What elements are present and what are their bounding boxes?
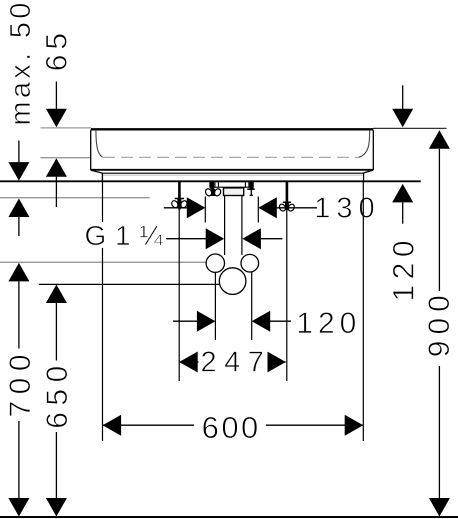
left circle extension line down bbox=[214, 272, 216, 340]
max. 50 up arrow bbox=[8, 199, 29, 218]
trap center leader line for 650 bbox=[39, 283, 220, 285]
basin apron top edge line bbox=[102, 172, 363, 174]
G 1 1/4 arrow right-pointing bbox=[206, 228, 225, 249]
right mounting bolt washer bbox=[283, 201, 291, 203]
120 horizontal dim leader bbox=[173, 320, 198, 322]
wire: gray wall offset line below wall bbox=[0, 197, 150, 199]
wire: gray extension line of rim top, left of basin bbox=[41, 127, 92, 129]
basin inner bowl fillet left bbox=[96, 131, 103, 158]
drain trap circle bbox=[219, 268, 246, 295]
right mounting bolt wing nut bbox=[278, 203, 295, 212]
600 arrow left-pointing bbox=[103, 415, 122, 436]
left mounting bolt tip bbox=[178, 207, 180, 210]
900 up arrow bbox=[429, 130, 450, 149]
600 dim left extension line bbox=[102, 173, 104, 441]
65 lower dim line bbox=[55, 177, 57, 207]
G 1 1/4 arrow left-pointing bbox=[242, 228, 261, 249]
600 dimension line bbox=[103, 424, 364, 426]
svg-text:130: 130 bbox=[314, 193, 380, 225]
faucet hole circle right bbox=[241, 254, 259, 272]
wire: rim top extension line, right of basin bbox=[373, 127, 447, 129]
130 dim arrow right-pointing bbox=[187, 197, 206, 218]
650 up arrow bbox=[46, 285, 67, 304]
basin rim outline bbox=[91, 129, 374, 170]
wall mounting line bbox=[0, 180, 421, 182]
floor line bbox=[0, 516, 458, 518]
700 up arrow bbox=[8, 263, 29, 282]
247 arrow left-pointing bbox=[179, 352, 198, 373]
120 right upper pointer line bbox=[402, 85, 404, 110]
label 700 (rotated, on white) bbox=[6, 349, 33, 422]
left bolt extension line down bbox=[178, 210, 180, 382]
wire: gray faucet-hole center line bbox=[0, 261, 207, 263]
right circle extension line down bbox=[251, 272, 253, 340]
label 900 (rotated, on white) bbox=[425, 291, 453, 366]
right mounting bolt shaft bbox=[286, 181, 289, 202]
svg-text:650: 650 bbox=[41, 359, 74, 429]
max. 50 down arrow bbox=[8, 162, 29, 181]
max. 50 upper dim line bbox=[18, 141, 20, 164]
drain pipe right wall bbox=[241, 196, 243, 255]
basin apron right edge bbox=[363, 173, 365, 181]
700 down arrow bbox=[8, 498, 29, 517]
900 dimension line bbox=[438, 149, 440, 500]
130 dim leader line bbox=[164, 207, 188, 209]
900 down arrow bbox=[429, 498, 450, 517]
basin inner bowl fillet right bbox=[359, 131, 370, 158]
120 right down arrow bbox=[392, 109, 413, 128]
drain outlet box bbox=[224, 188, 244, 196]
600 arrow right-pointing bbox=[345, 415, 364, 436]
svg-text:max. 50: max. 50 bbox=[5, 0, 37, 126]
left mounting bolt washer bbox=[175, 198, 184, 200]
svg-text:900: 900 bbox=[423, 289, 456, 357]
left mounting bolt wing nut bbox=[170, 200, 188, 209]
left mounting bolt shaft bbox=[178, 181, 181, 198]
wire: gray bowl-depth extension line, left of basin bbox=[41, 157, 92, 159]
right bolt extension line down bbox=[286, 211, 288, 382]
mask for G label over extension line bbox=[83, 222, 164, 248]
120 right lower dim line bbox=[402, 202, 404, 223]
120 horizontal arrow left-pointing bbox=[252, 311, 271, 332]
svg-text:700: 700 bbox=[4, 348, 37, 418]
600 dim right extension line bbox=[362, 181, 364, 441]
svg-text:120: 120 bbox=[296, 307, 361, 340]
drain flange left bolt head bbox=[210, 182, 214, 190]
130 dim arrow left-pointing bbox=[258, 197, 277, 218]
svg-text:120: 120 bbox=[387, 235, 420, 302]
label 600 bbox=[194, 411, 266, 440]
faucet hole circle left bbox=[206, 254, 224, 272]
label G 1 1/4 bbox=[83, 221, 165, 249]
650 dimension line bbox=[55, 303, 57, 500]
basin bottom step diagonal right bbox=[364, 170, 373, 173]
65 down arrow bbox=[46, 109, 67, 128]
basin apron shading line bbox=[103, 174, 363, 176]
svg-text:600: 600 bbox=[202, 410, 261, 445]
130 dim right extension line bbox=[257, 197, 259, 223]
wire: dashed hidden line of bowl bottom inside basin bbox=[103, 156, 359, 158]
G 1 1/4 leader line bbox=[166, 238, 207, 240]
svg-text:65: 65 bbox=[41, 28, 74, 71]
drain flange right bolt head bbox=[249, 182, 253, 190]
247 arrow right-pointing bbox=[267, 352, 286, 373]
drain flange right T-pin bbox=[247, 188, 255, 190]
120 right up arrow bbox=[392, 184, 413, 203]
65 up arrow bbox=[46, 158, 67, 177]
247 dimension line bbox=[179, 361, 286, 363]
label 247 bbox=[199, 348, 268, 375]
65 upper dim line bbox=[55, 82, 57, 111]
130 dim left extension line bbox=[204, 197, 206, 223]
max. 50 lower dim line bbox=[18, 217, 20, 236]
650 down arrow bbox=[46, 498, 67, 517]
basin apron left edge bbox=[101, 173, 103, 181]
120 horizontal arrow right-pointing bbox=[197, 311, 216, 332]
basin bottom step diagonal left bbox=[91, 170, 102, 173]
drain flange plate bbox=[210, 182, 253, 188]
drain flange left wing nut bbox=[204, 188, 222, 197]
700 dimension line bbox=[18, 281, 20, 499]
svg-text:247: 247 bbox=[201, 347, 272, 379]
drain pipe left wall bbox=[224, 196, 226, 255]
label 650 (rotated, on white) bbox=[43, 361, 70, 433]
svg-text:G 1 ¼: G 1 ¼ bbox=[85, 220, 164, 251]
